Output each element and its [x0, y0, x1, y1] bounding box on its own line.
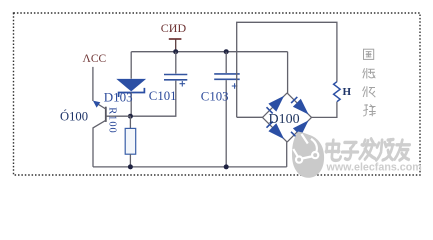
svg-text:CИD: CИD — [161, 21, 187, 35]
resistor H (zigzag) — [334, 82, 341, 102]
bridge diode top-right (toward right corner) — [291, 97, 309, 115]
wm char fa — [360, 139, 377, 159]
wm char zi — [342, 142, 359, 159]
bridge diode bottom-right (toward right corner) — [291, 120, 309, 138]
svg-text:R100: R100 — [106, 107, 117, 134]
wm char shao — [376, 139, 394, 160]
wire top rail — [131, 51, 287, 53]
junction dot base node — [128, 114, 133, 119]
capacitor C101 — [130, 52, 187, 117]
svg-text:www.elecfans.com: www.elecfans.com — [326, 161, 422, 173]
bridge diode bottom-left (toward bottom corner) — [267, 122, 285, 140]
wm char dian — [325, 140, 342, 160]
zener diode D103 — [116, 52, 146, 117]
wire ACC to transistor emitter — [92, 67, 94, 101]
coil note char 4 — [363, 104, 376, 116]
resistor R100 — [125, 116, 136, 167]
wire loop left to bridge — [237, 116, 263, 118]
coil note char 1 — [364, 49, 374, 59]
coil note char 3 — [363, 86, 376, 97]
junction dot bottom R100 — [128, 164, 133, 169]
svg-text:D100: D100 — [269, 112, 300, 127]
watermark CJK text — [325, 139, 410, 161]
diode bridge D100 edges — [263, 93, 312, 142]
wire H to bridge right — [312, 102, 337, 118]
ground — [169, 39, 182, 52]
transistor Q100 — [93, 101, 130, 167]
svg-text:C103: C103 — [201, 90, 229, 104]
junction dot rail/C103 — [224, 49, 229, 54]
capacitor C103 — [214, 52, 240, 167]
wire rail to bridge top — [287, 52, 289, 93]
watermark logo — [292, 132, 324, 178]
junction dot bottom C103 — [224, 164, 229, 169]
wm char you — [395, 140, 411, 160]
bridge diode top-left (toward top corner) — [267, 96, 285, 114]
wire bottom rail — [93, 166, 287, 168]
outer loop top wire — [237, 22, 337, 117]
junction dot rail/GND/C101 — [173, 49, 178, 54]
coil note char 2 — [363, 68, 376, 79]
svg-text:Ó100: Ó100 — [60, 109, 88, 123]
svg-text:D103: D103 — [104, 90, 133, 105]
svg-text:ΛCC: ΛCC — [83, 53, 107, 65]
svg-text:C101: C101 — [149, 89, 177, 103]
wire bottom rail to bridge bottom — [286, 142, 288, 167]
coil note text column (hand-drawn CJK glyphs) — [363, 49, 376, 116]
border frame (dotted) — [14, 13, 421, 175]
svg-text:H: H — [343, 86, 352, 98]
